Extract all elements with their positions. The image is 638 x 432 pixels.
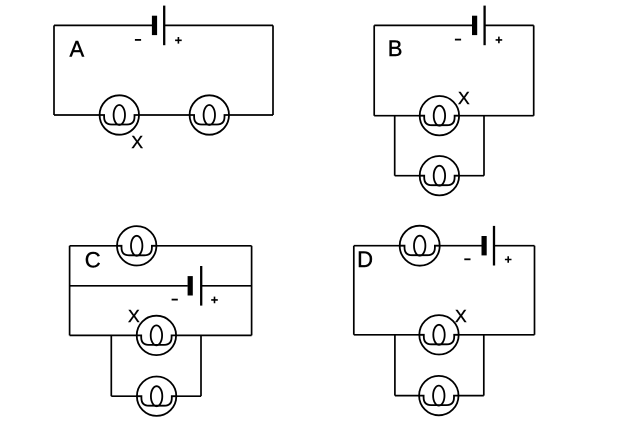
wire: B top edge, left of battery: [374, 24, 472, 26]
battery (cell) circuit D: [464, 226, 511, 266]
circuit B: battery with lamp X in series, one lamp parallel: [374, 6, 534, 196]
negative plate: [188, 276, 193, 295]
svg-text:X: X: [458, 88, 470, 108]
wire: A left edge: [53, 25, 55, 115]
circuit C: battery on middle rail, lamp on top, lamp X + parallel lamp below: [70, 226, 252, 416]
svg-text:B: B: [388, 36, 403, 61]
circuit A: series circuit, battery + two lamps: [54, 6, 273, 152]
wire: C parallel branch bottom: [111, 395, 201, 397]
wire: B parallel branch bottom: [395, 175, 484, 177]
battery (cell) circuit C: [172, 266, 218, 306]
label + (positive terminal): [505, 256, 512, 263]
wire: B bottom edge: [374, 115, 534, 117]
wire: D left edge: [353, 246, 355, 335]
svg-text:A: A: [70, 36, 85, 61]
svg-text:X: X: [131, 132, 143, 152]
wire: B parallel branch left vertical: [394, 116, 396, 176]
lamp X (left bulb, circuit A): [100, 95, 139, 134]
wire: D parallel branch bottom: [395, 395, 484, 397]
wire: A bottom edge: [54, 114, 273, 116]
lamp (lower parallel bulb, circuit C): [137, 377, 176, 416]
wire: A top edge, right of battery: [164, 24, 273, 26]
wire: C parallel branch left vertical: [110, 335, 112, 396]
lamp X (upper bulb, circuit B): [420, 96, 459, 135]
positive plate: [163, 6, 165, 46]
wire: D bottom edge: [354, 334, 535, 336]
svg-text:X: X: [455, 306, 467, 326]
negative plate: [152, 16, 157, 35]
wire: B parallel branch right vertical: [483, 116, 485, 176]
circuit D: lamp + battery on top edge, lamp X + parallel lamp below: [354, 226, 535, 416]
wire: D parallel branch right vertical: [483, 335, 485, 396]
wire: C top edge: [70, 245, 252, 247]
wire: C middle rail, right of battery: [201, 285, 251, 287]
positive plate: [200, 266, 202, 306]
wire: D parallel branch left vertical: [394, 335, 396, 396]
lamp X (middle bulb, circuit D): [419, 315, 458, 354]
lamp (lower parallel bulb, circuit D): [419, 376, 458, 415]
label - (negative terminal): [172, 299, 178, 301]
wire: C right edge: [251, 246, 253, 336]
negative plate: [472, 16, 477, 35]
wire: D top edge, left of battery: [354, 245, 482, 247]
label - (negative terminal): [135, 39, 141, 41]
positive plate: [493, 226, 495, 266]
wire: C parallel branch right vertical: [200, 335, 202, 396]
negative plate: [482, 236, 487, 255]
svg-text:D: D: [357, 247, 373, 272]
label + (positive terminal): [211, 297, 218, 304]
label + (positive terminal): [175, 37, 182, 44]
lamp X (middle bulb, circuit C): [137, 316, 176, 355]
wire: C left edge: [69, 246, 71, 336]
wire: A top edge, left of battery: [54, 24, 152, 26]
wire: D right edge: [534, 246, 536, 335]
wire: C middle rail, left of battery: [70, 285, 188, 287]
battery (cell) circuit B: [455, 6, 502, 46]
wire: B top edge, right of battery: [485, 24, 534, 26]
lamp (lower parallel bulb, circuit B): [420, 156, 459, 195]
wire: B left edge: [373, 25, 375, 115]
label + (positive terminal): [496, 37, 503, 44]
lamp (top bulb, circuit C): [117, 226, 156, 265]
positive plate: [483, 6, 485, 46]
wire: A right edge: [272, 25, 274, 115]
label - (negative terminal): [455, 39, 461, 41]
label - (negative terminal): [464, 258, 470, 260]
wire: C bottom edge: [70, 334, 252, 336]
svg-text:X: X: [128, 306, 140, 326]
lamp (top bulb, circuit D): [400, 226, 440, 266]
battery (cell) circuit A: [135, 6, 182, 46]
wire: D top edge, right of battery: [494, 245, 535, 247]
lamp (right bulb, circuit A): [190, 95, 229, 134]
svg-text:C: C: [85, 248, 101, 273]
wire: B right edge: [533, 25, 535, 115]
